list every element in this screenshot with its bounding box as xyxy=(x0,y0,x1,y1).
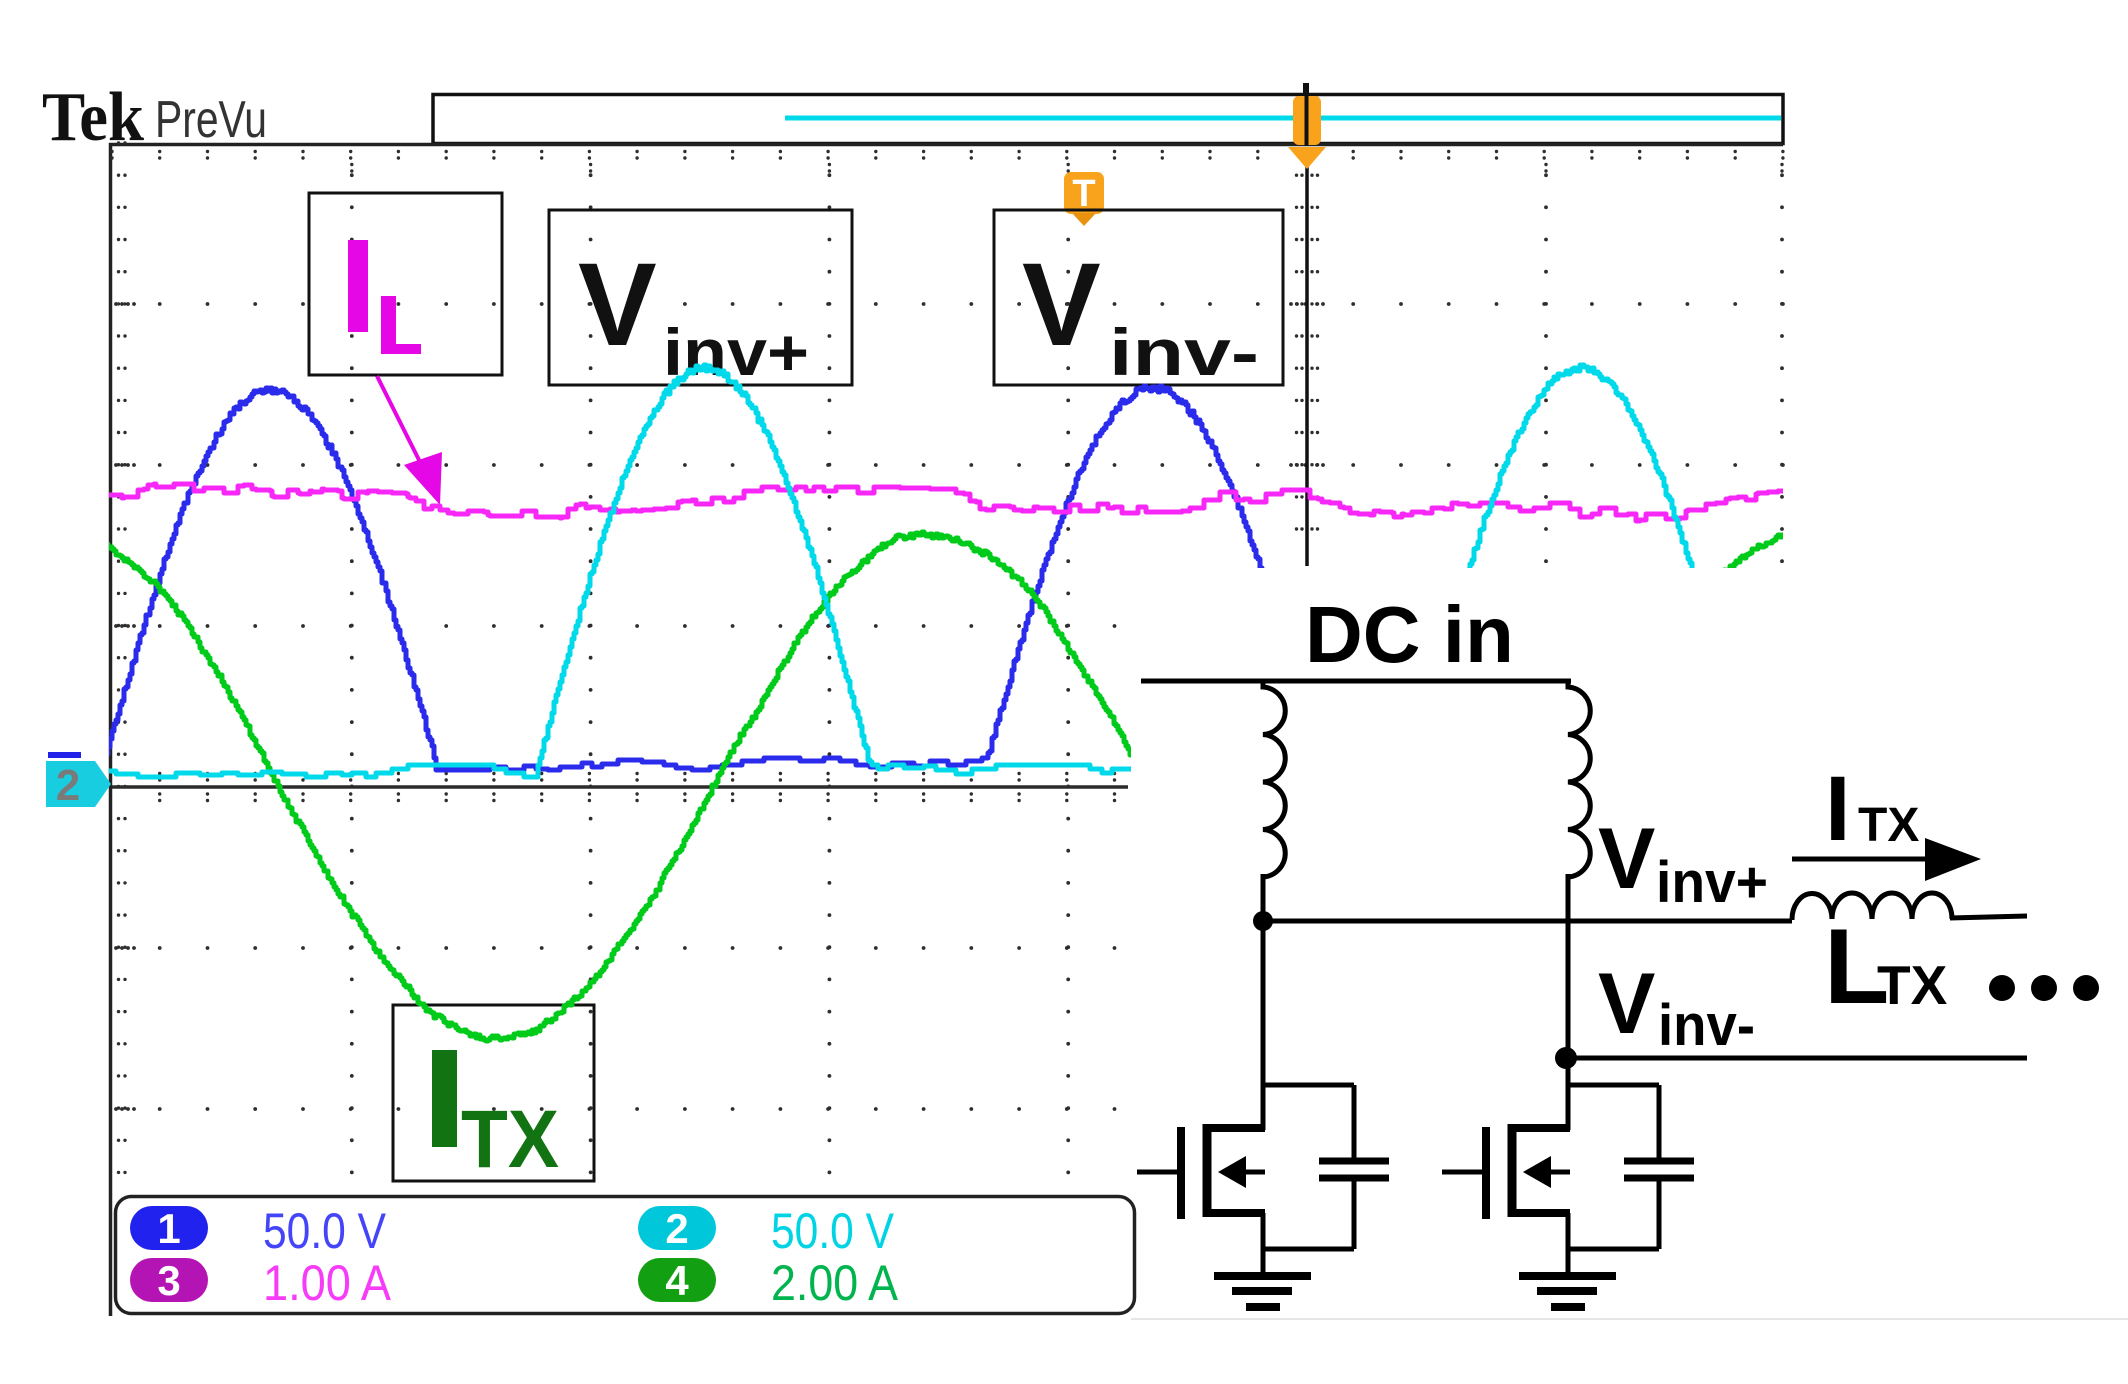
svg-text:DC in: DC in xyxy=(1305,590,1514,679)
svg-text:TX: TX xyxy=(461,1094,559,1185)
svg-text:TX: TX xyxy=(1877,954,1948,1016)
svg-text:V: V xyxy=(1022,239,1101,371)
svg-text:1.00 A: 1.00 A xyxy=(263,1255,392,1311)
svg-text:1: 1 xyxy=(157,1205,180,1252)
svg-text:PreVu: PreVu xyxy=(155,91,267,149)
svg-text:V: V xyxy=(1598,956,1655,1052)
svg-text:inv+: inv+ xyxy=(1656,850,1768,915)
svg-text:inv-: inv- xyxy=(1658,993,1755,1058)
svg-text:4: 4 xyxy=(665,1257,689,1304)
svg-text:inv-: inv- xyxy=(1109,315,1259,389)
svg-text:50.0 V: 50.0 V xyxy=(771,1203,895,1259)
svg-text:TX: TX xyxy=(1858,799,1919,852)
svg-text:2: 2 xyxy=(56,761,80,810)
svg-text:V: V xyxy=(1598,811,1655,907)
svg-text:I: I xyxy=(1825,758,1851,860)
svg-text:3: 3 xyxy=(157,1257,180,1304)
svg-text:V: V xyxy=(578,239,657,371)
svg-text:50.0 V: 50.0 V xyxy=(263,1203,387,1259)
svg-text:2: 2 xyxy=(665,1205,688,1252)
svg-text:2.00 A: 2.00 A xyxy=(771,1255,899,1311)
